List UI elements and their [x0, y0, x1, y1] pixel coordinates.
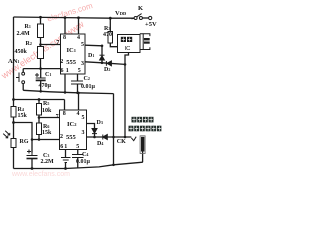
wire R6 bottom — [38, 135, 40, 140]
wire AN1 top — [22, 69, 24, 73]
label R1 — [25, 24, 31, 30]
wire left rail lower — [13, 117, 15, 139]
light arrows at RG — [3, 131, 10, 138]
value 2.4M — [17, 31, 30, 37]
wire C2 top stub — [77, 74, 79, 81]
pin 7 IC2 — [56, 114, 59, 120]
pin 5 bottom — [78, 68, 81, 74]
wire left rail below RG — [13, 147, 15, 168]
wire rail A drop to CK — [113, 94, 115, 165]
pin 1 IC2 — [64, 144, 67, 150]
wire CK horizontal — [87, 136, 132, 138]
pin 2 IC2 — [60, 134, 63, 140]
wire rail B — [14, 99, 65, 101]
label R2 — [26, 41, 32, 47]
wire IC1 pin3 out — [85, 62, 125, 65]
value 0.01u C4 — [76, 159, 90, 165]
value 15k — [18, 113, 27, 119]
wire pin7 IC2 — [39, 117, 60, 119]
wire C4 top — [77, 150, 79, 155]
label R5 — [43, 101, 49, 107]
pin 5 right — [81, 42, 84, 48]
diode D3 — [92, 129, 97, 134]
capacitor C4 — [72, 155, 84, 158]
resistor R4 — [11, 107, 16, 118]
wire left rail — [13, 17, 15, 107]
label CK — [117, 139, 126, 145]
wire rail A — [23, 90, 113, 93]
wire switch to +5V — [143, 17, 149, 19]
label IC2 — [67, 121, 76, 128]
label C1 — [45, 72, 51, 78]
wire R3 stub — [109, 18, 111, 31]
junction dots — [12, 16, 126, 170]
resistor R2 — [38, 47, 44, 59]
pin 4 IC2 — [77, 111, 80, 117]
wire IC1 pin4 stub — [78, 18, 80, 34]
label VDD — [115, 10, 126, 17]
pin 4 — [77, 35, 80, 41]
op-amp/timer IC1 555 box — [60, 34, 85, 74]
wire IC1 pin5 out — [85, 44, 102, 47]
timer IC2 555 box — [60, 110, 87, 150]
value 15k (R6) — [42, 130, 51, 136]
wire gnd to rail — [65, 163, 67, 169]
wire top rail to switch — [132, 17, 135, 20]
label D4 — [97, 141, 103, 147]
resistor R3 — [108, 32, 113, 44]
wire trigger node — [23, 68, 60, 70]
diode D4 — [103, 135, 108, 140]
wire IC1 pin1 down — [64, 74, 66, 92]
wire top rail — [14, 17, 135, 18]
switch K — [134, 14, 152, 20]
label RG — [20, 139, 29, 145]
resistor R6 — [37, 123, 42, 135]
wire D1 vertical — [101, 46, 103, 63]
label C2 — [84, 76, 90, 82]
output port — [140, 136, 145, 154]
wire vertical to CK — [124, 63, 126, 137]
label C4 — [82, 152, 88, 158]
music IC box — [117, 35, 140, 53]
wire pin2 IC2 — [32, 139, 60, 141]
pin 1 — [66, 68, 69, 74]
pin 7 — [56, 40, 59, 46]
capacitor C3 electrolytic — [27, 150, 38, 159]
speaker — [140, 33, 150, 50]
value 470 — [103, 32, 112, 38]
value 10k — [42, 108, 51, 114]
label K — [138, 5, 143, 12]
label C3 — [43, 153, 49, 159]
wire pin7 of IC1 — [41, 44, 61, 46]
photoresistor RG — [11, 139, 16, 148]
resistor R1 — [38, 24, 44, 38]
wire D3 bottom — [94, 134, 96, 137]
wire C1 top stub — [40, 69, 42, 78]
label +5V — [145, 21, 157, 28]
wire R1-R2 junction to pin7 — [40, 38, 42, 47]
capacitor C2 — [71, 81, 83, 84]
resistor R5 — [37, 104, 42, 116]
label R6 — [43, 124, 49, 130]
watermark www.elecfans.com stripe A — [0, 19, 86, 81]
wire IC2 pin4 stub — [78, 93, 80, 111]
wire R1 top stub — [40, 17, 42, 24]
watermark stripe B — [46, 1, 94, 23]
value 0.01u — [81, 84, 95, 90]
label IC1 — [67, 47, 76, 54]
label 555 (IC2) — [66, 134, 76, 141]
wire AN1 bottom — [22, 84, 24, 91]
diode D1 — [100, 55, 105, 60]
capacitor C1 electrolytic — [35, 73, 46, 80]
label R4 — [18, 107, 24, 113]
wire C4 bottom — [77, 158, 79, 169]
wire IC2 pin1 ground — [65, 150, 67, 158]
pin 5 IC2 right — [82, 115, 85, 121]
push button AN1 — [16, 72, 25, 83]
green CJK text blocks line1 — [132, 117, 154, 123]
wire bottom rail — [14, 162, 143, 168]
wire C2 bottom stub — [77, 84, 79, 93]
label D2 — [104, 67, 110, 73]
value 470u — [39, 83, 51, 89]
wire music IC input vertical — [125, 53, 129, 64]
pin 6 — [61, 68, 64, 74]
CK jack — [131, 137, 136, 141]
diode D2 — [106, 61, 111, 66]
pin 3 — [81, 61, 84, 67]
wire C1 bottom stub — [40, 80, 42, 91]
label AN1 — [8, 58, 19, 65]
wire R5 R6 junction to pin7 IC2 — [38, 115, 40, 123]
wire port down — [142, 152, 144, 163]
pin 3 IC2 — [82, 130, 85, 136]
pin 6 IC2 — [60, 144, 63, 150]
value 450k — [15, 49, 27, 55]
green CJK text blocks line2 — [129, 126, 162, 132]
label 555 — [66, 59, 76, 66]
wire R3 bottom to music IC — [110, 43, 117, 47]
label D1 — [88, 53, 94, 59]
pin 8 IC2 — [63, 111, 66, 117]
wire IC2 pin8 stub — [64, 100, 66, 111]
label R3 — [104, 26, 110, 32]
wire R2 bottom — [40, 59, 42, 69]
label D3 — [97, 120, 103, 126]
wire R4 RG node to C3 — [14, 123, 33, 153]
pin 5 IC2 bottom — [76, 144, 79, 150]
wire IC2 pin5 out to D3 — [87, 124, 95, 129]
ground — [61, 158, 71, 163]
wire IC1 pin8 stub — [64, 18, 66, 34]
pin 2 — [60, 59, 63, 65]
music IC label blocks (CJK) — [121, 37, 132, 42]
wire R5 top stub — [38, 100, 40, 104]
wire C3 bottom — [31, 159, 33, 169]
value 2.2M — [41, 159, 54, 165]
pin 8 — [63, 35, 66, 41]
